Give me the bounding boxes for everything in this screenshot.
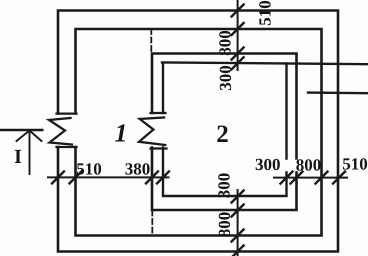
svg-text:I: I [14,146,22,168]
svg-text:380: 380 [125,160,151,179]
svg-text:300: 300 [255,155,281,174]
svg-text:300: 300 [216,65,235,91]
svg-text:800: 800 [296,156,322,175]
svg-text:800: 800 [216,30,235,56]
svg-text:300: 300 [215,173,234,199]
svg-text:510: 510 [256,0,275,26]
svg-text:800: 800 [215,212,234,238]
svg-text:2: 2 [216,121,229,148]
svg-text:510: 510 [342,155,368,174]
svg-text:510: 510 [76,160,102,179]
svg-text:1: 1 [115,119,128,148]
